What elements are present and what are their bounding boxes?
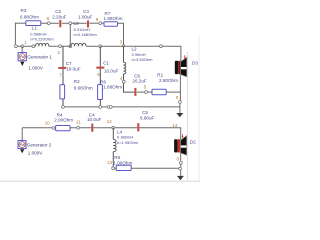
loudspeaker D2 <box>174 134 196 155</box>
panel far-right edge <box>199 35 200 181</box>
ground (bottom section) <box>177 176 184 180</box>
svg-text:R2: R2 <box>74 79 80 84</box>
svg-text:10.0uF: 10.0uF <box>87 117 101 122</box>
wire: left rail (row1 to row2) <box>14 23 16 47</box>
wire: R7 to node3 corner <box>118 23 124 46</box>
svg-text:1.000V: 1.000V <box>28 66 43 71</box>
wire: R1 to right rail <box>166 91 180 93</box>
node bus pair b <box>109 106 112 109</box>
node 0 (top) <box>176 95 182 104</box>
resistor R5 <box>113 155 132 171</box>
resistor R4 <box>54 113 73 131</box>
wire: tie vertical row1-row2 <box>69 25 71 45</box>
resistor R2 <box>60 79 93 99</box>
node 0 (bottom) <box>177 156 183 164</box>
node bus R2 pin <box>62 106 65 109</box>
wire: woofer feed row <box>22 128 181 140</box>
resistor R7 <box>104 11 123 26</box>
svg-text:4: 4 <box>120 76 123 81</box>
node 5 <box>144 85 148 94</box>
panel bottom border <box>0 181 200 182</box>
svg-text:11: 11 <box>76 119 81 124</box>
svg-text:10: 10 <box>45 120 50 125</box>
inductor L4 <box>113 129 138 151</box>
bus wire (top section ground bus) <box>63 106 180 108</box>
inductor L3 <box>71 21 98 46</box>
svg-text:0: 0 <box>176 95 179 100</box>
svg-text:13: 13 <box>107 160 112 165</box>
wire: C1/R6 branch <box>99 46 101 107</box>
svg-text:D2: D2 <box>190 140 196 145</box>
svg-text:0: 0 <box>177 156 180 161</box>
node speaker D3 feed pin <box>160 45 163 48</box>
svg-text:3: 3 <box>120 39 123 44</box>
generator 1 <box>18 46 52 70</box>
svg-text:18.0uF: 18.0uF <box>66 66 80 71</box>
svg-text:12: 12 <box>107 119 112 124</box>
svg-text:1.68Ohm: 1.68Ohm <box>104 16 123 21</box>
wire: D2 bottom to ground <box>180 153 182 176</box>
resistor R3 <box>20 8 41 25</box>
svg-text:1.68Ohm: 1.68Ohm <box>103 85 122 90</box>
svg-text:C1: C1 <box>103 60 109 65</box>
wire: L4 branch <box>113 128 116 169</box>
svg-text:D3: D3 <box>192 61 198 66</box>
node bus R6 pin <box>99 106 102 109</box>
wire: R3 to node 8 <box>41 22 59 24</box>
svg-text:R3: R3 <box>21 8 27 13</box>
svg-text:1.00uF: 1.00uF <box>78 14 92 19</box>
wire: row1 left to R3 <box>15 22 26 24</box>
svg-text:R1: R1 <box>157 72 163 77</box>
node 4 <box>120 76 125 83</box>
svg-text:7: 7 <box>59 73 62 78</box>
svg-text:6.80uF: 6.80uF <box>140 115 154 120</box>
node row2 left pin <box>15 45 18 48</box>
capacitor C1 <box>96 60 118 73</box>
wire: C6 to R1 <box>137 91 152 93</box>
svg-text:2.20uF: 2.20uF <box>52 14 66 19</box>
svg-text:L4: L4 <box>117 129 123 134</box>
node bus pair a <box>107 106 110 109</box>
node L1 left pin <box>32 45 35 48</box>
capacitor C7 <box>58 61 80 72</box>
ground (top section) <box>176 113 183 117</box>
node junction row1/row2 tie top <box>69 22 72 25</box>
svg-text:L1: L1 <box>32 25 38 30</box>
svg-text:8: 8 <box>47 16 50 21</box>
capacitor C6 <box>132 73 146 96</box>
svg-text:1.00Ohm: 1.00Ohm <box>113 161 132 166</box>
svg-text:L2: L2 <box>132 47 138 52</box>
wire: R5 to ground junction <box>131 167 180 169</box>
svg-text:1.000V: 1.000V <box>28 151 43 156</box>
svg-text:26.2uF: 26.2uF <box>132 78 146 83</box>
node ground junction (bottom) <box>179 167 182 170</box>
svg-text:C7: C7 <box>66 61 72 66</box>
node 13 <box>107 160 115 169</box>
svg-text:ri=0.168Ohm: ri=0.168Ohm <box>74 32 98 37</box>
capacitor C3 <box>78 9 92 27</box>
node junction row1/row2 tie bottom <box>69 45 72 48</box>
wire: D3 bottom to ground <box>179 75 182 114</box>
svg-text:6: 6 <box>97 72 100 77</box>
panel right border <box>186 52 189 181</box>
capacitor C5 <box>137 110 154 131</box>
svg-text:ri=3.54Ohm: ri=3.54Ohm <box>132 57 154 62</box>
svg-text:5: 5 <box>144 85 147 90</box>
svg-text:2.00Ohm: 2.00Ohm <box>54 118 73 123</box>
svg-text:ri=0.220Ohm: ri=0.220Ohm <box>30 36 54 41</box>
node 11 <box>76 119 81 129</box>
svg-text:L3: L3 <box>74 21 80 26</box>
wire: C2 to junction <box>62 22 87 24</box>
svg-text:8.68Ohm: 8.68Ohm <box>74 85 93 90</box>
svg-text:1: 1 <box>24 40 27 45</box>
node 3 <box>120 39 125 47</box>
svg-text:0.380mH: 0.380mH <box>117 135 133 140</box>
svg-text:14: 14 <box>172 123 177 128</box>
node 9 <box>96 17 102 24</box>
node 8 <box>47 16 51 24</box>
wire: row2 horizontal <box>15 46 181 61</box>
loudspeaker D3 <box>175 55 199 77</box>
resistor R1 <box>152 72 178 95</box>
svg-text:2.80Ohm: 2.80Ohm <box>159 78 178 83</box>
svg-text:8.310mH: 8.310mH <box>74 27 90 32</box>
svg-text:9: 9 <box>96 17 99 22</box>
node 10 <box>45 120 55 129</box>
node 1 <box>21 40 27 48</box>
node 12 <box>107 119 115 129</box>
inductor L2 <box>124 47 154 74</box>
svg-text:2: 2 <box>58 50 61 55</box>
svg-text:10.0uF: 10.0uF <box>104 68 118 73</box>
svg-text:ri=1.95Ohm: ri=1.95Ohm <box>117 140 139 145</box>
generator 2 <box>18 128 52 156</box>
svg-text:Generator 1: Generator 1 <box>27 55 52 60</box>
capacitor C2 <box>52 9 66 27</box>
svg-text:Generator 2: Generator 2 <box>27 143 52 148</box>
svg-text:R5: R5 <box>114 155 120 160</box>
wire: L2 to node 4 <box>124 46 135 92</box>
svg-text:6.88Ohm: 6.88Ohm <box>20 15 39 20</box>
node C1-branch tee <box>99 45 102 48</box>
wire: C7/R2 branch <box>62 46 64 107</box>
wire: C3 to node 9 <box>89 22 104 24</box>
node 2 <box>58 45 62 55</box>
resistor R6 <box>98 79 123 99</box>
inductor L1 <box>30 25 54 46</box>
capacitor C4 <box>87 112 101 131</box>
